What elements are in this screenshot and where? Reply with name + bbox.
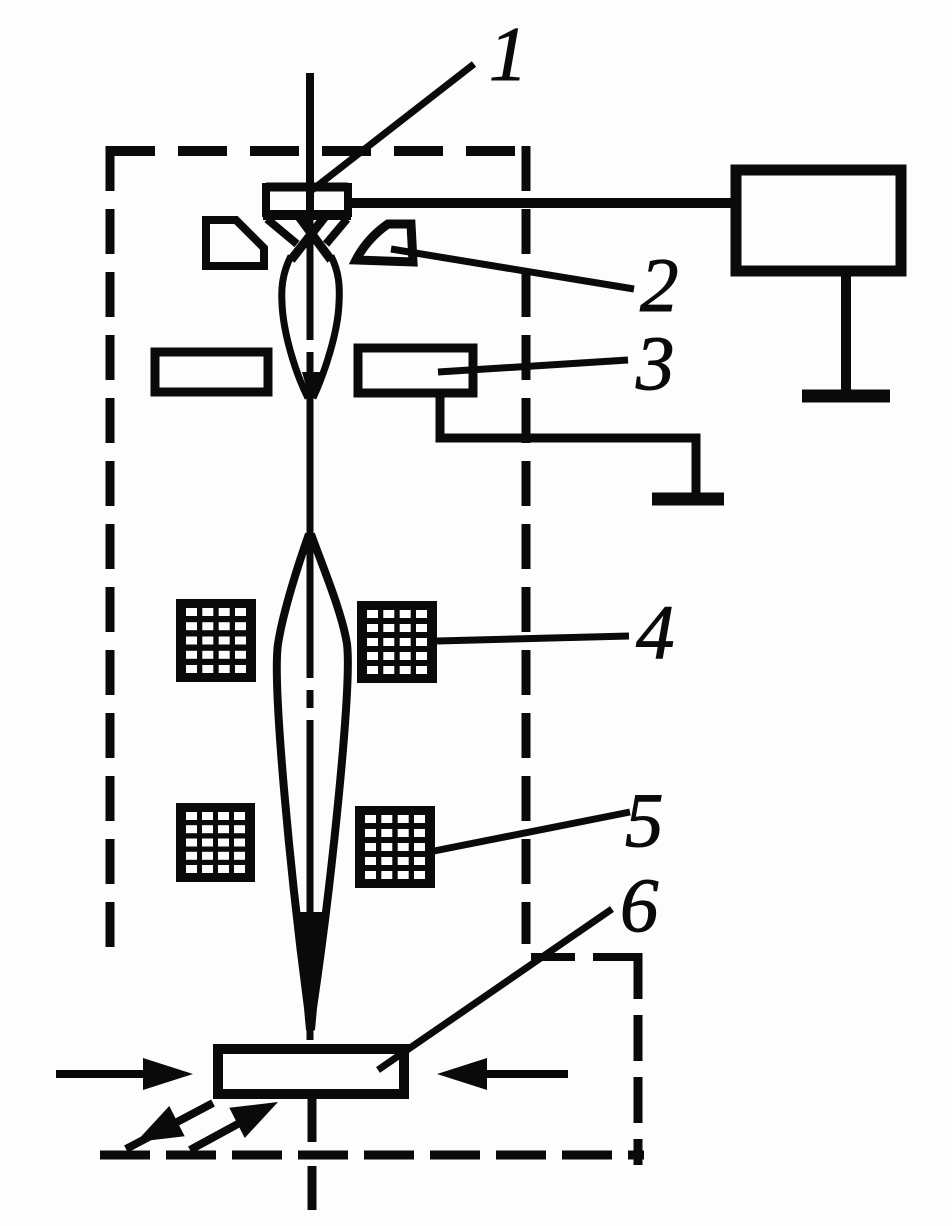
second beam spindle envelope (277, 534, 348, 1030)
magnetic lens coil grid upper-left (176, 599, 256, 682)
optical axis: segment above gun (306, 73, 314, 215)
svg-text:5: 5 (625, 777, 664, 863)
leader line to label 2 (391, 249, 634, 289)
deflector plate U3, label 3 (358, 348, 473, 393)
svg-text:4: 4 (636, 589, 675, 675)
label 2 (640, 242, 679, 328)
deflection coil grid lower-left (176, 803, 255, 882)
feed arrow left (56, 1058, 193, 1090)
power supply box (736, 170, 901, 271)
emission arrow outward (down-left) (126, 1103, 213, 1157)
label 6 (620, 862, 659, 948)
leader line to label 1 (312, 64, 474, 190)
focus wedge at first crossover (302, 372, 320, 404)
svg-text:6: 6 (620, 862, 659, 948)
dashed enclosure: right edge (522, 146, 531, 944)
anode right piece, label 2 (356, 224, 413, 262)
leader line to label 5 (434, 812, 630, 851)
optical axis: segment through first beam crossover (307, 215, 314, 398)
power supply stand base (802, 390, 890, 403)
wire: gun to power supply (350, 198, 734, 208)
label 5 (625, 777, 664, 863)
dashed work chamber: bottom edge (100, 1151, 644, 1160)
workpiece 6 (218, 1049, 404, 1094)
leader line to label 4 (437, 636, 629, 641)
power supply stand stem (841, 276, 851, 392)
leader line to label 6 (378, 909, 612, 1070)
wire: deflector to ground (440, 393, 696, 496)
electron gun U1 (cathode cup), label 1 (263, 183, 351, 244)
dashed work chamber: right edge (634, 953, 643, 1165)
aperture plate left (155, 352, 268, 392)
optical axis: segments inside second beam spindle (307, 545, 314, 1040)
emission arrow toward workpiece (up-right) (190, 1087, 286, 1150)
svg-text:2: 2 (640, 242, 679, 328)
svg-text:3: 3 (635, 320, 675, 406)
beam convergence wedge above workpiece (298, 912, 324, 1030)
magnetic lens coil grid upper-right, label 4 (357, 601, 437, 683)
svg-text:1: 1 (489, 11, 528, 97)
anode left piece, label 2 (206, 220, 264, 266)
beam crossover X below gun (291, 214, 331, 260)
deflection coil grid lower-right, label 5 (355, 806, 435, 888)
label 4 (636, 589, 675, 675)
first beam spindle envelope (282, 256, 340, 398)
optical axis: segment between focus and second lens field (307, 398, 314, 545)
dashed enclosure: left edge (106, 146, 115, 957)
dashed enclosure: electron-optical column, top edge (106, 146, 530, 156)
label 3 (635, 320, 675, 406)
leader line to label 3 (438, 360, 628, 372)
ground symbol (652, 493, 724, 506)
feed arrow right (437, 1058, 568, 1090)
optical axis: dash-dot below workpiece (308, 1099, 317, 1210)
label 1 (489, 11, 528, 97)
dashed work chamber: top edge segment (531, 953, 643, 961)
